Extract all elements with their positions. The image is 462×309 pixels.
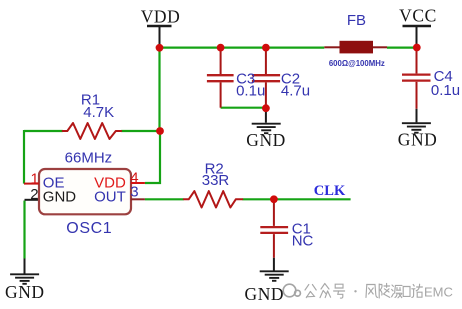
svg-text:GND: GND — [246, 130, 286, 150]
svg-text:4.7K: 4.7K — [83, 104, 114, 121]
svg-text:600Ω@100MHz: 600Ω@100MHz — [329, 59, 385, 68]
svg-text:OUT: OUT — [94, 188, 126, 205]
svg-text:NC: NC — [292, 232, 314, 249]
svg-text:0.1u: 0.1u — [431, 82, 460, 99]
svg-text:OSC1: OSC1 — [66, 220, 112, 237]
svg-text:3: 3 — [130, 184, 138, 201]
svg-text:CLK: CLK — [314, 183, 346, 199]
svg-text:VCC: VCC — [399, 6, 437, 26]
svg-text:EMC: EMC — [424, 284, 453, 299]
svg-text:0.1u: 0.1u — [236, 83, 265, 100]
svg-text:4.7u: 4.7u — [281, 83, 310, 100]
svg-text:FB: FB — [347, 12, 366, 29]
svg-text:GND: GND — [5, 282, 45, 302]
svg-text:GND: GND — [43, 189, 77, 206]
svg-text:GND: GND — [398, 130, 438, 150]
svg-text:66MHz: 66MHz — [65, 149, 113, 166]
svg-text:GND: GND — [245, 284, 285, 304]
svg-text:2: 2 — [30, 186, 38, 203]
svg-text:VDD: VDD — [141, 6, 181, 26]
svg-text:1: 1 — [30, 170, 38, 187]
svg-text:33R: 33R — [202, 172, 230, 189]
